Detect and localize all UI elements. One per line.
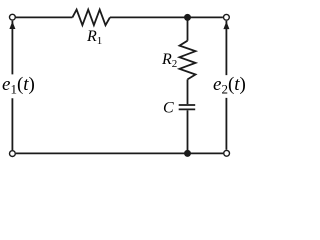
svg-text:e2(t): e2(t) bbox=[213, 74, 246, 97]
svg-text:e1(t): e1(t) bbox=[2, 74, 35, 97]
svg-text:R1: R1 bbox=[86, 28, 102, 47]
svg-text:R2: R2 bbox=[161, 51, 177, 70]
svg-text:C: C bbox=[163, 100, 174, 117]
